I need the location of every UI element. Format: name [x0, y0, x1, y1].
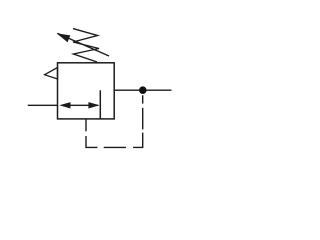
adjustment spring: [73, 29, 99, 62]
flow double arrow shaft: [62, 104, 98, 106]
pilot dashed segment right vertical middle: [142, 108, 144, 130]
exhaust triangle: [45, 68, 58, 80]
pilot dashed segment bottom middle: [104, 146, 126, 148]
junction dot: [139, 86, 147, 94]
pilot dashed segment lower-left corner: [86, 136, 98, 147]
pilot dashed segment lower-right corner: [133, 133, 143, 148]
adjustment arrow head: [56, 33, 70, 42]
adjustment arrow shaft: [58, 33, 110, 56]
pilot line stub below box: [85, 119, 87, 131]
flow arrow right head: [88, 102, 99, 108]
regulator body box: [58, 63, 115, 119]
flow arrow left head: [59, 102, 70, 108]
pilot dashed segment below junction: [142, 95, 144, 103]
output port line: [114, 89, 171, 91]
inner blocked-passage line: [99, 90, 101, 119]
input port line: [28, 104, 58, 106]
